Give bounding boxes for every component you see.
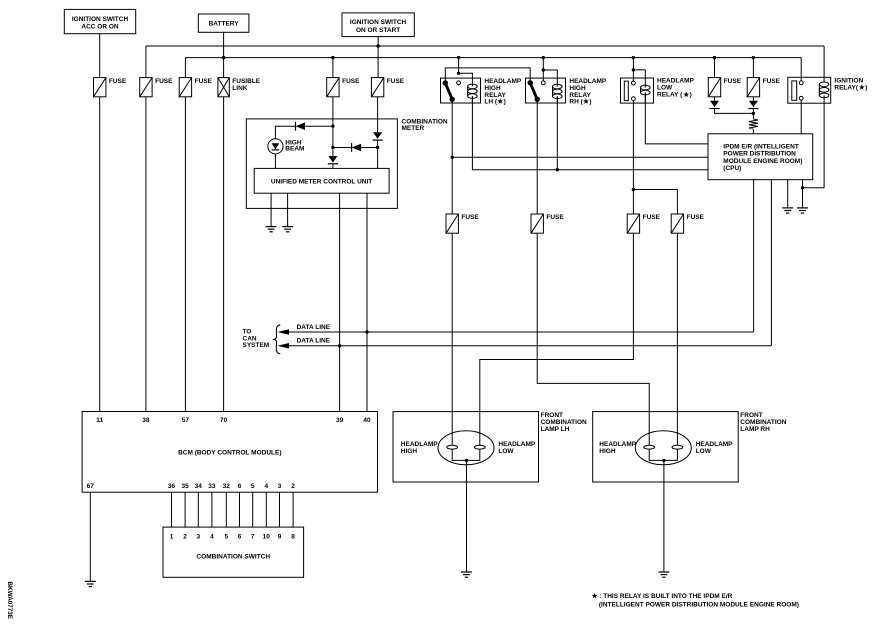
diode D5	[710, 101, 719, 108]
relay box: headlamp high relay RH	[526, 78, 566, 103]
diode D1 (to high-beam indicator)	[296, 122, 306, 130]
svg-text:FUSE: FUSE	[387, 78, 405, 85]
wires: BCM to combination switch	[171, 492, 173, 527]
svg-text:FUSE: FUSE	[342, 78, 360, 85]
svg-text:ACC OR ON: ACC OR ON	[81, 24, 119, 31]
wire: ignition switch ON/START drop through bus1 to fuse F6	[377, 37, 379, 78]
junction: fuse F8 / bus2	[752, 56, 755, 59]
wire: IPDM ground pin 2	[802, 180, 804, 208]
ground (IPDM 2)	[797, 207, 808, 209]
headlamp bulb ellipse LH	[438, 431, 494, 465]
junction: RH relay feed / bus2	[542, 56, 545, 59]
LOW relay contact bar	[624, 81, 628, 101]
front combination lamp LH box	[393, 412, 539, 482]
svg-text:LOW: LOW	[498, 448, 514, 455]
wire: UMCU ground pin 2	[287, 193, 289, 226]
svg-text:RELAY (: RELAY (	[657, 92, 683, 99]
svg-text:BATTERY: BATTERY	[209, 21, 240, 28]
junction: meter node A	[331, 125, 334, 128]
junction: LH relay coil branch	[457, 72, 460, 75]
battery box	[198, 14, 249, 32]
svg-text:: THIS RELAY IS BUILT INTO THE: : THIS RELAY IS BUILT INTO THE IPDM E/R	[599, 593, 732, 600]
ignition switch ACC-or-ON box	[64, 9, 135, 33]
svg-text:FUSE: FUSE	[546, 214, 564, 221]
svg-text:FUSE: FUSE	[195, 78, 213, 85]
junction: ignition switch / bus1	[376, 44, 379, 47]
filament return bar RH	[649, 449, 677, 460]
junction: diode outputs	[752, 112, 755, 115]
svg-text:UNIFIED METER CONTROL UNIT: UNIFIED METER CONTROL UNIT	[271, 178, 372, 185]
diode D3 (ignition feed)	[373, 132, 382, 139]
wire: ACC supply from ignition switch to fuse F1	[99, 34, 101, 78]
wire: IPDM output to data line 2	[770, 180, 772, 346]
fuse F7 (IPDM supply 1)	[708, 78, 720, 97]
RH relay contact pin circle	[541, 81, 545, 85]
wire: bus1 ON-or-START horizontal rail	[146, 45, 824, 47]
junction: RH relay coil branch	[542, 68, 545, 71]
footnote star legend	[592, 593, 598, 598]
wire: diode D5 output elbow to junction	[715, 109, 754, 114]
LOW relay bottom pin circle	[632, 97, 636, 101]
svg-text:2: 2	[291, 483, 295, 490]
wire: LOW relay coil return to IPDM left pin 1	[645, 93, 708, 144]
diode D4 (node B down)	[332, 148, 334, 157]
svg-text:6: 6	[238, 483, 242, 490]
wire: lamp RH ground stem	[663, 460, 665, 572]
wire: LH relay switch output down to fuse F9	[451, 99, 453, 214]
svg-text:39: 39	[336, 417, 344, 424]
filament return bar LH	[452, 449, 480, 460]
LOW relay top pin circle	[632, 81, 636, 85]
low filament RH	[672, 445, 683, 449]
svg-text:2: 2	[183, 534, 187, 541]
data line 2 arrow	[278, 343, 290, 349]
relay box: ignition relay	[788, 77, 831, 103]
fuse F2 (ON/START circuit)	[140, 78, 152, 97]
wire: LOW relay switch output down	[632, 101, 634, 214]
svg-text:38: 38	[142, 417, 150, 424]
wire: diode D6 output	[752, 109, 754, 119]
fuse F11 (headlamp low LH)	[627, 214, 639, 233]
wire: fuse F10 output routed to RH high filament	[537, 233, 649, 445]
wire: BCM pin 67 to ground	[89, 492, 91, 581]
svg-text:40: 40	[363, 417, 371, 424]
svg-text:FUSIBLE: FUSIBLE	[232, 78, 260, 85]
LH relay coil	[468, 84, 478, 89]
wire: fuse F12 output to RH low filament	[676, 233, 678, 445]
svg-text:BKWA0773E: BKWA0773E	[6, 582, 13, 619]
svg-text:FUSE: FUSE	[724, 78, 742, 85]
wire: RH relay coil feed bracket	[543, 70, 557, 87]
junction: LH headlamp feed / IPDM sense	[451, 156, 454, 159]
svg-text:ON OR START: ON OR START	[356, 27, 400, 34]
wire: LH relay coil feed bracket	[459, 73, 473, 86]
ground (IPDM 1)	[782, 207, 793, 209]
svg-text:67: 67	[87, 483, 95, 490]
fuse F12 (headlamp low RH)	[671, 214, 683, 233]
svg-text:LINK: LINK	[232, 85, 247, 92]
junction: data line 2 / BCM pin 39 branch	[338, 344, 341, 347]
svg-text:MODULE ENGINE ROOM): MODULE ENGINE ROOM)	[723, 158, 802, 165]
svg-text:5: 5	[224, 534, 228, 541]
svg-text:FUSE: FUSE	[109, 78, 127, 85]
wire: fuse F5 output into meter	[332, 97, 334, 148]
svg-text:32: 32	[223, 483, 231, 490]
wire: UMCU data pin down to BCM pin 39	[339, 193, 341, 411]
fuse F6 (ignition, combination meter)	[371, 78, 383, 97]
svg-text:COMBINATION SWITCH: COMBINATION SWITCH	[197, 554, 271, 561]
wire: bus2 drop to LOW relay	[632, 58, 634, 82]
svg-text:HIGH: HIGH	[599, 448, 616, 455]
relay box: headlamp low relay	[621, 78, 654, 103]
wire: resistor to IPDM top	[752, 130, 754, 134]
wire: fuse F2 output down to BCM pin 38	[145, 97, 147, 412]
svg-text:34: 34	[195, 483, 203, 490]
svg-text:9: 9	[278, 534, 282, 541]
svg-text:3: 3	[278, 483, 282, 490]
svg-text:): )	[690, 92, 692, 99]
wire: UMCU ground pin 1	[270, 193, 272, 226]
svg-text:FUSE: FUSE	[643, 214, 661, 221]
ignition relay bottom pin circle	[799, 96, 803, 100]
high filament LH	[447, 445, 458, 449]
ground (meter 2)	[282, 226, 293, 228]
svg-text:FUSE: FUSE	[155, 78, 173, 85]
svg-text:POWER DISTRIBUTION: POWER DISTRIBUTION	[723, 151, 796, 158]
svg-text:LOW: LOW	[657, 85, 673, 92]
svg-text:IGNITION SWITCH: IGNITION SWITCH	[350, 19, 407, 26]
high filament RH	[644, 445, 655, 449]
RH relay coil	[553, 84, 563, 89]
wire: fuse F6 output into meter to diode D3	[377, 97, 379, 133]
svg-text:5: 5	[251, 483, 255, 490]
ignition relay top pin circle	[799, 81, 803, 85]
wire: data line 1 (CAN-H) to IPDM	[282, 331, 754, 333]
wire: data line 2 (CAN-L) to IPDM	[282, 345, 771, 347]
wire: LH relay coil return rail to IPDM left pin 3	[472, 96, 708, 170]
wire: fuse F7 to diode D5	[714, 97, 716, 101]
svg-text:DATA LINE: DATA LINE	[297, 338, 331, 345]
junction: meter node B	[331, 146, 334, 149]
svg-text:1: 1	[170, 534, 174, 541]
junction: LOW relay coil branch	[632, 68, 635, 71]
headlamp bulb ellipse RH	[635, 431, 691, 465]
wire: IPDM output to data line 1	[753, 180, 755, 332]
svg-text:METER: METER	[402, 125, 425, 132]
wire: bus1 left drop to fuse F2	[145, 46, 147, 78]
wire: bus2 left drop to fuse F3	[184, 58, 186, 78]
junction: ignition relay coil return / IPDM ground	[801, 186, 804, 189]
wire: battery drop to fusible link	[223, 32, 225, 77]
low filament LH	[474, 445, 485, 449]
BCM box	[82, 412, 377, 493]
svg-text:LH (: LH (	[484, 99, 497, 106]
svg-text:35: 35	[181, 483, 189, 490]
svg-text:RELAY(: RELAY(	[834, 85, 858, 92]
svg-text:11: 11	[96, 417, 103, 424]
wire: fuse F1 output down to BCM pin 11	[99, 97, 101, 412]
svg-text:36: 36	[168, 483, 176, 490]
wire: LOW relay coil feed bracket	[633, 70, 645, 88]
wire: IPDM ground pin 1	[787, 180, 789, 208]
fusible link	[218, 78, 229, 97]
svg-text:HEADLAMP: HEADLAMP	[657, 78, 694, 85]
high beam indicator LED circle	[268, 139, 283, 154]
diode D2 (between meter nodes)	[352, 144, 362, 152]
LOW relay coil	[641, 85, 651, 90]
junction: data line 1 / BCM pin 40 branch	[365, 330, 368, 333]
diode D6	[749, 101, 758, 108]
svg-text:): )	[589, 99, 591, 106]
LH relay switch arm	[445, 83, 452, 99]
ground (lamp RH)	[658, 571, 669, 573]
svg-text:DATA LINE: DATA LINE	[297, 324, 331, 331]
wire: bus2 drop to fuse F7	[714, 58, 716, 78]
svg-text:): )	[504, 99, 506, 106]
junction: fuse F7 / bus2	[713, 56, 716, 59]
svg-text:4: 4	[264, 483, 268, 490]
junction: low beam feed split	[632, 188, 635, 191]
svg-text:LOW: LOW	[696, 448, 712, 455]
wire: diode D3 to node C	[377, 140, 379, 168]
fuse F3 (battery circuit)	[179, 78, 191, 97]
svg-text:IGNITION: IGNITION	[834, 78, 863, 85]
wire: indicator to unified meter control unit	[274, 154, 276, 169]
junction: battery / bus2	[222, 56, 225, 59]
wire: RH relay switch output down to fuse F10	[536, 99, 538, 214]
wire: bus2 battery horizontal rail	[185, 57, 801, 59]
wire: bus2 drop to fuse F5	[332, 58, 334, 78]
unified meter control unit box	[254, 168, 389, 193]
svg-text:HIGH: HIGH	[401, 448, 418, 455]
junction: LOW relay feed / bus2	[632, 56, 635, 59]
ignition switch ON-or-START box	[342, 13, 414, 37]
data line 1 arrow	[278, 329, 290, 335]
svg-text:LAMP LH: LAMP LH	[541, 426, 570, 433]
wire: bus2 drop to fuse F8	[752, 58, 754, 78]
svg-text:(CPU): (CPU)	[723, 165, 741, 172]
ignition relay contact bar	[792, 81, 797, 100]
svg-text:70: 70	[220, 417, 228, 424]
fuse F10 (headlamp high RH)	[531, 214, 543, 233]
svg-text:SYSTEM: SYSTEM	[243, 342, 270, 349]
wire: ignition relay coil to ground dot	[803, 95, 825, 187]
ground (BCM)	[85, 580, 96, 582]
fuse F8 (IPDM supply 2)	[747, 78, 759, 97]
wire: UMCU data pin down to BCM pin 40	[366, 193, 368, 411]
svg-text:3: 3	[196, 534, 200, 541]
svg-text:BEAM: BEAM	[285, 146, 304, 153]
svg-text:): )	[865, 85, 867, 92]
wire: low beam branch to fuse F12	[633, 190, 677, 215]
wire: fuse F3 output down to BCM pin 57	[184, 97, 186, 412]
junction: RH relay coil return joins rail	[556, 168, 559, 171]
svg-text:10: 10	[263, 534, 271, 541]
junction: meter node C	[376, 146, 379, 149]
wire: node A to diode D1 and to indicator	[305, 125, 333, 127]
svg-text:FUSE: FUSE	[461, 214, 479, 221]
RH relay switch arm	[530, 83, 537, 100]
wire: fuse F8 to diode D6	[752, 97, 754, 101]
fuse F1 (ACC circuit)	[94, 78, 106, 97]
fuse F5 (battery, combination meter)	[327, 78, 339, 97]
brace for CAN system	[274, 325, 280, 354]
svg-text:RH (: RH (	[569, 99, 583, 106]
svg-text:FUSE: FUSE	[763, 78, 781, 85]
wire: bus2 drop to RH relay	[542, 58, 544, 81]
wire: RH relay coil return	[556, 96, 558, 169]
IPDM E/R box	[708, 134, 813, 180]
junction: fuse F5 / bus2	[331, 56, 334, 59]
relay box: headlamp high relay LH	[441, 78, 481, 103]
wire: lamp LH ground stem	[466, 460, 468, 572]
svg-text:8: 8	[291, 534, 295, 541]
combination meter box	[246, 119, 397, 208]
wire: ignition relay contact to IPDM top	[800, 100, 802, 134]
svg-text:6: 6	[238, 534, 242, 541]
wire: fuse F9 output to LH high filament	[451, 233, 453, 445]
svg-text:FUSE: FUSE	[687, 214, 705, 221]
svg-text:33: 33	[208, 483, 216, 490]
LH relay contact pin circle	[457, 81, 461, 85]
svg-text:4: 4	[210, 534, 214, 541]
svg-text:BCM (BODY CONTROL MODULE): BCM (BODY CONTROL MODULE)	[178, 450, 281, 457]
svg-text:IGNITION SWITCH: IGNITION SWITCH	[72, 16, 129, 23]
ignition relay coil	[819, 82, 829, 87]
wire: fuse F11 output routed to LH low filament	[480, 233, 634, 445]
wire: fusible link output down to BCM pin 70	[223, 97, 225, 412]
svg-text:7: 7	[251, 534, 255, 541]
svg-text:(INTELLIGENT POWER DISTRIBUTIO: (INTELLIGENT POWER DISTRIBUTION MODULE E…	[599, 601, 799, 608]
junction: LH relay feed / bus2	[457, 56, 460, 59]
wire: bus2 right end drop to ignition relay pin	[800, 58, 802, 81]
wire: bus1 right end drop through ignition relay coil	[823, 46, 825, 82]
wire: LH headlamp sense to IPDM left pin 2	[452, 156, 708, 158]
combination switch box	[163, 527, 304, 577]
ground (meter 1)	[266, 226, 277, 228]
wire: LH/RH relay pivot cross rail	[445, 68, 530, 83]
svg-text:57: 57	[182, 417, 190, 424]
svg-text:IPDM E/R (INTELLIGENT: IPDM E/R (INTELLIGENT	[723, 143, 799, 150]
svg-text:LAMP RH: LAMP RH	[740, 426, 770, 433]
resistor (coil suppression) to IPDM	[749, 119, 758, 129]
wire: bus2 drop to LH relay	[458, 58, 460, 74]
front combination lamp RH box	[593, 412, 739, 482]
fuse F9 (headlamp high LH)	[446, 214, 458, 233]
ground (lamp LH)	[461, 571, 472, 573]
